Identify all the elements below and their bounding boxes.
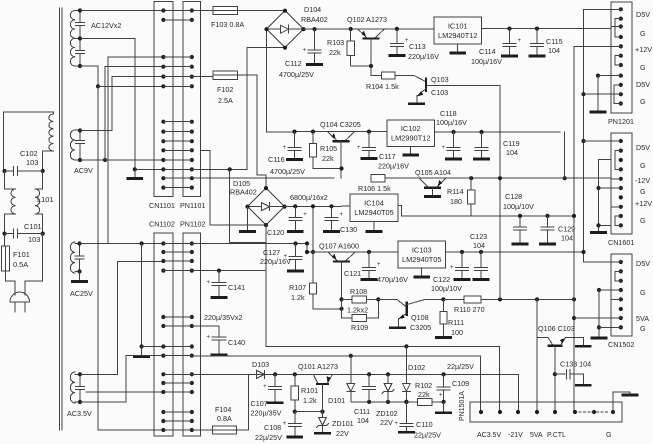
zener ZD101 — [322, 412, 324, 418]
svg-text:R101: R101 — [301, 386, 318, 395]
wire F104 row — [192, 429, 213, 431]
wire rail374 to PN1501A — [517, 374, 519, 412]
capacitor C113 — [395, 27, 399, 31]
svg-text:ZD101: ZD101 — [332, 419, 354, 428]
svg-text:Q103: Q103 — [431, 75, 449, 84]
node R108 right — [367, 298, 379, 300]
fuse F103 — [213, 6, 238, 14]
svg-text:D102: D102 — [408, 363, 425, 372]
resistor R104 — [381, 72, 395, 79]
svg-text:100µ/10V: 100µ/10V — [431, 284, 462, 293]
wire D105 out rail — [285, 205, 351, 207]
svg-text:G: G — [640, 97, 646, 106]
svg-text:+: + — [394, 421, 398, 427]
connector CN1102 — [154, 233, 173, 436]
svg-text:C112: C112 — [285, 59, 302, 68]
svg-text:104: 104 — [561, 234, 573, 243]
ground IC103 — [421, 268, 423, 276]
wire D104 out rail — [304, 28, 434, 30]
wire IC104 output rail — [398, 206, 574, 216]
svg-text:LM2940T05: LM2940T05 — [354, 208, 393, 217]
wire net x574 — [574, 46, 611, 412]
PN1201 internal links — [615, 19, 621, 37]
svg-text:LM2990T12: LM2990T12 — [391, 134, 430, 143]
svg-text:F101: F101 — [13, 250, 30, 259]
svg-text:C141: C141 — [228, 283, 245, 292]
wire 5VA rail — [481, 298, 574, 300]
capacitor C118 — [451, 130, 455, 134]
svg-text:AC9V: AC9V — [74, 166, 93, 175]
svg-text:R102: R102 — [415, 381, 432, 390]
svg-text:100µ/16V: 100µ/16V — [471, 57, 502, 66]
svg-text:Q106 C103: Q106 C103 — [538, 324, 575, 333]
svg-text:103: 103 — [28, 235, 40, 244]
svg-text:G: G — [640, 63, 646, 72]
svg-text:CN1101: CN1101 — [149, 201, 175, 210]
svg-text:C120: C120 — [267, 228, 284, 237]
wire F104 up to rail374 — [237, 374, 249, 430]
svg-text:0.5A: 0.5A — [13, 260, 28, 269]
svg-text:G: G — [640, 161, 646, 170]
wire to Q108 base — [378, 298, 397, 300]
diode D102 — [405, 346, 407, 383]
wire row178 rail — [192, 177, 334, 179]
svg-text:100: 100 — [451, 328, 463, 337]
svg-text:-21V: -21V — [508, 432, 523, 439]
svg-text:C113: C113 — [409, 42, 426, 51]
capacitor C116 — [292, 130, 296, 134]
svg-text:+: + — [357, 145, 361, 151]
wire F103 to D104 — [238, 10, 286, 12]
svg-text:22µ/25V: 22µ/25V — [255, 433, 282, 442]
wire row10 to F103 — [192, 10, 213, 12]
transistor Q104 — [334, 140, 348, 142]
svg-text:C119: C119 — [503, 139, 520, 148]
svg-text:C110: C110 — [416, 420, 433, 429]
wire branch x229 — [228, 167, 232, 171]
transistor Q105 — [425, 187, 439, 189]
svg-text:R114: R114 — [447, 187, 464, 196]
svg-text:G: G — [606, 432, 611, 439]
capacitor C123 — [479, 250, 483, 254]
svg-text:PN1101: PN1101 — [180, 201, 205, 210]
capacitor C129 — [545, 214, 549, 218]
wire bend to Q107 rail — [307, 244, 313, 253]
CN1601 internal links — [615, 151, 621, 170]
svg-text:+: + — [263, 384, 267, 390]
svg-text:C130: C130 — [340, 225, 357, 234]
svg-text:G: G — [640, 29, 646, 38]
svg-text:220µ/35V: 220µ/35V — [251, 409, 282, 418]
wire row243 to CN1102 — [108, 243, 163, 245]
wire rail401 — [351, 401, 418, 403]
diode D103 — [257, 370, 265, 378]
svg-text:R103: R103 — [327, 38, 344, 47]
wire IC104 feed down to Q107 rail — [312, 206, 314, 252]
resistor R114 — [469, 176, 473, 180]
svg-text:F103 0.8A: F103 0.8A — [211, 20, 244, 29]
svg-text:C3205: C3205 — [410, 323, 431, 332]
svg-text:22k: 22k — [418, 390, 430, 399]
capacitor C109 — [442, 372, 446, 376]
capacitor C119 — [479, 130, 483, 134]
fuse F104 — [213, 426, 237, 434]
capacitor C101 — [2, 232, 6, 236]
svg-text:C127: C127 — [263, 248, 280, 257]
svg-text:Q104 C3205: Q104 C3205 — [320, 120, 361, 129]
svg-text:R105: R105 — [320, 144, 337, 153]
connector CN1601 — [611, 133, 632, 234]
svg-text:D104: D104 — [304, 5, 321, 14]
svg-text:D5V: D5V — [636, 143, 650, 152]
wire -12V to CN1601 — [564, 132, 566, 178]
svg-text:R109: R109 — [351, 323, 368, 332]
wire AC12V bottom via x98 — [80, 66, 163, 430]
ground PN1501A G pin — [613, 392, 630, 412]
svg-text:AC25V: AC25V — [70, 289, 93, 298]
capacitor C117 — [367, 130, 371, 134]
svg-text:PN1102: PN1102 — [180, 220, 205, 229]
svg-text:C128: C128 — [505, 192, 522, 201]
capacitor C127 — [293, 241, 297, 245]
wire to choke — [4, 171, 6, 189]
svg-text:1.2k: 1.2k — [291, 293, 305, 302]
svg-text:C133 104: C133 104 — [560, 360, 591, 369]
node base Q102 — [369, 64, 373, 68]
winding AC12Vx2 — [70, 11, 75, 67]
svg-text:22µ/25V: 22µ/25V — [447, 362, 474, 371]
wire C141 rail — [192, 270, 266, 272]
svg-text:AC3.5V: AC3.5V — [67, 409, 92, 418]
svg-text:C118: C118 — [440, 109, 457, 118]
wire -21V rail — [266, 271, 500, 347]
svg-text:P.CTL: P.CTL — [547, 432, 566, 439]
svg-text:IC103: IC103 — [412, 245, 432, 254]
wire AC9V bottom up to row67 — [103, 158, 107, 162]
capacitor C111 — [367, 372, 371, 376]
svg-text:+: + — [303, 212, 307, 218]
svg-text:D103: D103 — [252, 360, 269, 369]
Q106 collector ground — [566, 337, 584, 345]
svg-text:22k: 22k — [322, 154, 334, 163]
svg-text:CN1502: CN1502 — [608, 340, 634, 349]
svg-text:+: + — [283, 145, 287, 151]
svg-text:C103: C103 — [431, 88, 448, 97]
winding AC9V — [70, 130, 75, 160]
wire AC9V top to row77 — [80, 77, 163, 131]
svg-text:C101: C101 — [24, 222, 42, 231]
svg-text:ZD102: ZD102 — [376, 409, 398, 418]
capacitor C133 — [555, 373, 565, 375]
svg-text:5VA: 5VA — [530, 432, 543, 439]
svg-text:100µ/16V: 100µ/16V — [436, 118, 467, 127]
Q108 emitter ground — [399, 314, 406, 319]
svg-text:Q102 A1273: Q102 A1273 — [347, 15, 387, 24]
svg-text:L101: L101 — [37, 195, 53, 204]
wire row150 branch to D105 bottom — [201, 150, 266, 225]
node C133 — [553, 372, 557, 376]
transistor Q107 — [313, 251, 398, 253]
svg-text:C122: C122 — [433, 275, 450, 284]
ground IC101 — [457, 44, 459, 52]
svg-text:IC104: IC104 — [364, 199, 384, 208]
wire primary bottom — [43, 151, 54, 171]
wire IC102 output rail — [435, 131, 561, 133]
wire IC103 output rail — [446, 251, 584, 253]
resistor R107 — [312, 252, 314, 283]
svg-text:+: + — [207, 280, 211, 286]
svg-text:R110 270: R110 270 — [454, 305, 485, 314]
ground near CN1101 — [133, 167, 137, 171]
svg-text:PN1501A: PN1501A — [459, 391, 466, 421]
diode bridge D104 — [267, 11, 304, 48]
connector PN1201 — [611, 2, 632, 113]
resistor R106 — [371, 175, 385, 182]
diode D101 — [350, 356, 352, 384]
svg-text:C123: C123 — [470, 232, 487, 241]
svg-text:C117: C117 — [379, 152, 396, 161]
svg-text:2.5A: 2.5A — [218, 96, 233, 105]
svg-text:D5V: D5V — [636, 80, 650, 89]
svg-text:G: G — [640, 288, 646, 297]
resistor R105 — [311, 130, 315, 134]
svg-text:104: 104 — [357, 416, 369, 425]
wire AC9V bottom to row159 — [80, 159, 163, 161]
fuse F101 — [4, 234, 6, 246]
svg-text:D5V: D5V — [636, 10, 650, 19]
svg-text:+: + — [207, 335, 211, 341]
svg-text:G: G — [640, 324, 646, 333]
svg-text:+12V: +12V — [635, 45, 652, 54]
svg-text:C111: C111 — [354, 407, 370, 416]
wire P.CTL to PN1501A — [536, 337, 538, 412]
wire AC12V top to CN1101 — [80, 10, 163, 12]
wire row243 to C127 — [192, 243, 307, 245]
capacitor C102 — [2, 169, 6, 173]
svg-text:IC101: IC101 — [448, 21, 468, 30]
wire Q106 base feed — [537, 299, 548, 337]
connector CN1101 — [154, 2, 173, 197]
transformer core — [59, 8, 61, 430]
wire D5V net x583 — [584, 9, 612, 262]
regulator IC103 — [398, 241, 446, 268]
svg-text:R104 1.5k: R104 1.5k — [366, 82, 399, 91]
wire G net x599 low — [597, 288, 601, 292]
svg-text:220µ/16V: 220µ/16V — [408, 52, 439, 61]
ground CN1502 — [592, 337, 606, 340]
capacitor C120 — [293, 204, 297, 208]
wire rail374 main — [192, 373, 519, 375]
resistor R102 — [418, 398, 433, 405]
wire cap tap row392 — [86, 391, 163, 393]
wire mains top — [4, 112, 54, 114]
svg-text:C115: C115 — [546, 37, 563, 46]
svg-text:G: G — [640, 187, 646, 196]
wire D104 bottom corner to row169 — [192, 48, 285, 170]
wire to R104 — [371, 66, 381, 76]
svg-text:+12V: +12V — [635, 199, 652, 208]
connector PN1501A — [470, 402, 622, 422]
svg-text:220µ/16V: 220µ/16V — [260, 257, 291, 266]
transistor Q106 — [548, 337, 553, 345]
wire Q103 collector net x500 — [499, 85, 501, 299]
AC plug P101 — [10, 292, 29, 302]
wire rail 131 to IC102 — [267, 131, 388, 133]
svg-text:-12V: -12V — [635, 176, 650, 185]
wire row 86 tap — [96, 84, 100, 88]
svg-text:Q101 A1273: Q101 A1273 — [298, 362, 338, 371]
svg-text:470µ/16V: 470µ/16V — [377, 275, 408, 284]
capacitor C121 — [367, 250, 371, 254]
resistor R110 — [443, 298, 464, 300]
transistor Q108 — [406, 303, 408, 315]
svg-text:+: + — [283, 421, 287, 427]
svg-text:CN1102: CN1102 — [149, 220, 175, 229]
wire AC3.5V rail 355 — [192, 355, 481, 357]
Q108 collector — [407, 299, 443, 304]
transistor Q102 — [349, 27, 353, 31]
wire row326 rail — [192, 325, 219, 327]
Q103 emitter ground — [418, 89, 427, 97]
svg-text:22V: 22V — [380, 418, 393, 427]
svg-text:Q105 A104: Q105 A104 — [415, 168, 451, 177]
wire AC3.5V top up to row261 — [80, 262, 163, 375]
svg-text:C121: C121 — [344, 269, 361, 278]
svg-text:Q108: Q108 — [411, 313, 429, 322]
ground near CN1102 — [140, 344, 144, 348]
wire row346 to CN1102 — [142, 346, 164, 348]
capacitor C110 — [404, 400, 408, 404]
CN1102 pins — [161, 241, 165, 245]
wire G net x598 mid — [599, 160, 612, 232]
node R111 — [441, 297, 445, 301]
svg-text:+: + — [377, 262, 381, 268]
transistor Q101 — [313, 374, 317, 383]
wire choke to C101 — [4, 214, 6, 234]
svg-text:180: 180 — [450, 197, 462, 206]
svg-text:R107: R107 — [289, 283, 306, 292]
svg-text:1.2k: 1.2k — [303, 396, 317, 405]
wire AC3.5V bottom to row355 — [80, 356, 163, 402]
svg-text:104: 104 — [506, 148, 518, 157]
wire rail 178 main — [385, 177, 611, 179]
svg-text:+: + — [439, 393, 443, 399]
regulator IC104 — [350, 194, 398, 222]
wire AC25V top up to row57 — [80, 57, 164, 244]
svg-text:22µ/25V: 22µ/25V — [414, 431, 441, 440]
Q106 emitter down — [554, 346, 556, 412]
svg-text:+: + — [340, 212, 344, 218]
svg-text:LM2940T12: LM2940T12 — [438, 31, 477, 40]
resistor R103 — [350, 29, 352, 41]
svg-text:220µ/35Vx2: 220µ/35Vx2 — [204, 313, 243, 322]
connector CN1502 — [611, 254, 632, 336]
connector PN1101 — [183, 2, 201, 197]
ground IC104 — [373, 222, 375, 231]
resistor R111 — [442, 299, 444, 311]
wire R102 to C109 — [432, 401, 443, 403]
svg-text:5VA: 5VA — [636, 314, 649, 323]
capacitor C114 — [507, 27, 511, 31]
wire AC3.5V to PN1501A — [480, 356, 482, 412]
capacitor C108 — [294, 412, 296, 424]
svg-text:RBA402: RBA402 — [230, 188, 257, 197]
svg-text:100µ/10V: 100µ/10V — [503, 202, 534, 211]
svg-text:LM2940T05: LM2940T05 — [402, 255, 441, 264]
wire AC12V centre tap — [80, 39, 135, 170]
wire mains left conductor — [3, 112, 5, 171]
svg-text:PN1201: PN1201 — [608, 117, 634, 126]
ground CN1601 — [592, 231, 606, 234]
CN1502 internal links — [615, 271, 621, 280]
wire IC101 output rail — [482, 28, 612, 30]
transformer T101 primary winding — [49, 114, 54, 151]
resistor R101 — [293, 372, 297, 376]
wire to plug — [6, 271, 16, 295]
resistor R109 — [342, 317, 353, 319]
svg-text:C109: C109 — [452, 379, 469, 388]
svg-text:D5V: D5V — [636, 259, 650, 268]
diode bridge D105 — [248, 188, 285, 225]
regulator IC101 — [434, 17, 482, 44]
ground D105 left — [247, 207, 249, 231]
svg-text:+: + — [518, 38, 522, 44]
svg-text:22k: 22k — [329, 48, 341, 57]
svg-text:F104: F104 — [215, 405, 231, 414]
svg-text:1.2kx2: 1.2kx2 — [347, 306, 368, 315]
zener ZD102 — [386, 372, 390, 376]
wire ground branch x141 — [140, 241, 144, 245]
regulator IC102 — [387, 120, 435, 147]
connector PN1102 — [183, 233, 201, 436]
svg-text:C107: C107 — [251, 399, 268, 408]
svg-text:R108: R108 — [350, 287, 367, 296]
svg-text:104: 104 — [473, 241, 485, 250]
wire rail 411 — [293, 410, 297, 414]
capacitor C122 — [460, 250, 464, 254]
node R108 left — [339, 297, 343, 301]
inductor L101 — [5, 188, 16, 190]
svg-text:6800µ/16x2: 6800µ/16x2 — [290, 193, 328, 202]
wire R104 to Q103 — [395, 75, 414, 77]
svg-text:C129: C129 — [558, 225, 575, 234]
capacitor C140 — [218, 326, 220, 337]
wire F102 to D105 top — [238, 75, 267, 188]
winding AC3.5V — [70, 372, 75, 403]
ground PN1201 — [591, 111, 605, 114]
fuse F102 — [213, 71, 238, 79]
resistor R108 — [342, 298, 353, 300]
svg-text:AC12Vx2: AC12Vx2 — [91, 21, 121, 30]
wire row76 to F102 — [192, 76, 213, 78]
svg-text:C116: C116 — [268, 155, 285, 164]
svg-text:104: 104 — [548, 46, 560, 55]
svg-text:IC102: IC102 — [401, 124, 421, 133]
svg-text:C108: C108 — [264, 423, 281, 432]
capacitor C130 — [329, 204, 333, 208]
wire centre tap to row169 — [135, 168, 164, 170]
svg-text:RBA402: RBA402 — [301, 15, 328, 24]
Q103 collector wire — [427, 84, 499, 86]
svg-text:+: + — [442, 145, 446, 151]
svg-text:+: + — [450, 265, 454, 271]
svg-text:Q107 A1600: Q107 A1600 — [319, 242, 359, 251]
svg-text:CN1601: CN1601 — [608, 238, 634, 247]
transistor Q103 — [425, 79, 427, 91]
svg-text:C140: C140 — [228, 338, 245, 347]
wire D105 bottom down — [265, 225, 267, 271]
svg-text:D101: D101 — [328, 396, 345, 405]
